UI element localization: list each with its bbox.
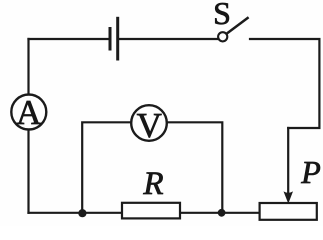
wire switch to top-right corner and down to step bbox=[250, 39, 319, 128]
battery cell: short plate bbox=[109, 27, 112, 51]
svg-text:R: R bbox=[142, 166, 163, 202]
resistor R box bbox=[122, 203, 180, 219]
rheostat P box bbox=[260, 203, 317, 220]
svg-text:S: S bbox=[213, 0, 231, 31]
wire left vertical (through ammeter) bbox=[27, 39, 29, 213]
battery cell: long plate bbox=[116, 17, 119, 61]
svg-text:A: A bbox=[16, 93, 42, 132]
wire bottom horizontal bbox=[29, 212, 260, 214]
wire top-left horizontal bbox=[29, 38, 110, 40]
switch S pivot circle bbox=[218, 32, 227, 41]
junction node left bbox=[78, 209, 86, 217]
wire battery to switch bbox=[119, 38, 218, 40]
rheostat wiper arrowhead bbox=[284, 191, 294, 203]
switch S lever bbox=[227, 17, 249, 33]
voltmeter V circle bbox=[131, 105, 167, 141]
rheostat wiper arrow shaft bbox=[287, 128, 289, 194]
svg-text:V: V bbox=[137, 106, 162, 145]
wire voltmeter parallel branch bbox=[82, 122, 222, 213]
ammeter A circle bbox=[11, 95, 46, 130]
svg-text:P: P bbox=[300, 154, 321, 190]
junction node right bbox=[218, 209, 226, 217]
